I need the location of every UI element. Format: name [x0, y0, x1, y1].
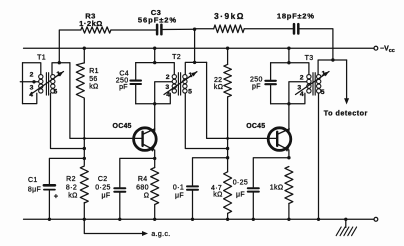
svg-text:8·2: 8·2 — [66, 184, 77, 191]
svg-text:8μF: 8μF — [28, 186, 41, 193]
node R1 top — [83, 47, 86, 50]
svg-text:To detector: To detector — [324, 108, 368, 117]
wire a.g.c. — [84, 219, 144, 233]
svg-text:R2: R2 — [66, 176, 76, 183]
svg-text:250: 250 — [250, 77, 263, 84]
-Vcc terminal — [374, 46, 378, 50]
ground — [344, 218, 347, 221]
resistor R2 — [80, 166, 88, 203]
resistor R3 — [81, 27, 111, 33]
svg-text:680: 680 — [136, 184, 149, 191]
svg-text:5: 5 — [321, 89, 325, 96]
svg-text:pF: pF — [119, 84, 128, 91]
svg-text:18pF±2%: 18pF±2% — [277, 12, 315, 21]
resistor R1 — [83, 48, 85, 63]
svg-text:T1: T1 — [37, 55, 46, 62]
svg-text:pF: pF — [252, 84, 261, 91]
wire 0.1uF branch — [193, 158, 228, 186]
svg-text:3·9kΩ: 3·9kΩ — [214, 11, 245, 21]
capacitor C2 — [114, 187, 125, 189]
capacitor 250pF — [270, 63, 272, 80]
wire — [111, 29, 156, 31]
wire T2 tank top — [136, 63, 175, 75]
svg-text:4: 4 — [300, 91, 304, 98]
svg-text:OC45: OC45 — [113, 123, 132, 130]
wire T3 tank bottom — [271, 93, 305, 104]
svg-text:22: 22 — [214, 77, 223, 84]
wire T3 pin5 to ground rail — [318, 93, 320, 219]
svg-text:R4: R4 — [138, 176, 148, 183]
transistor OC45 — [268, 128, 291, 151]
node 22k top — [226, 47, 229, 50]
bottom rail — [24, 218, 375, 220]
svg-text:0·1: 0·1 — [173, 184, 184, 191]
capacitor 0.25uF — [248, 187, 259, 189]
svg-text:kΩ: kΩ — [213, 192, 222, 199]
svg-text:−Vcc: −Vcc — [380, 46, 395, 55]
svg-text:Ω: Ω — [144, 193, 150, 200]
transformer T3 — [307, 75, 311, 79]
wire T3 secondary top — [318, 60, 347, 74]
resistor R4 — [154, 158, 156, 167]
wire feedback line 2 — [194, 29, 196, 62]
wire T2 tank bottom — [136, 93, 171, 104]
svg-text:5: 5 — [188, 89, 192, 96]
resistor 1k — [285, 167, 293, 204]
wire to base Q2 — [207, 62, 278, 138]
wire input tap — [20, 81, 38, 83]
svg-text:μF: μF — [175, 193, 184, 200]
svg-text:kΩ: kΩ — [68, 193, 77, 200]
svg-text:5: 5 — [54, 89, 58, 96]
svg-text:OC45: OC45 — [246, 123, 265, 130]
wire T3 tank top — [271, 63, 309, 75]
svg-text:0·25: 0·25 — [233, 180, 248, 187]
wire — [300, 29, 333, 60]
node T2 feed top — [153, 47, 156, 50]
svg-text:kΩ: kΩ — [214, 84, 223, 91]
node base/bias — [83, 137, 86, 140]
svg-text:1kΩ: 1kΩ — [270, 184, 284, 191]
node T3 feed — [287, 47, 290, 50]
node feedback junction — [193, 28, 196, 31]
wire — [244, 28, 293, 30]
wire T1 pin5 to bias node — [51, 93, 85, 148]
wire emitter Q1 — [154, 150, 156, 158]
transistor OC45 — [134, 128, 157, 151]
node C1 junction — [83, 157, 86, 160]
to detector arrow — [346, 60, 348, 100]
wire collector Q1 — [154, 104, 156, 131]
wire feed — [154, 48, 156, 62]
svg-text:3: 3 — [165, 84, 169, 91]
capacitor C4 — [135, 63, 137, 80]
transformer T1 — [39, 75, 43, 79]
svg-text:0·25: 0·25 — [95, 184, 110, 191]
svg-text:+: + — [54, 192, 59, 201]
svg-text:2: 2 — [30, 71, 34, 78]
svg-text:2: 2 — [166, 74, 170, 81]
wire emitter Q2 — [288, 150, 290, 158]
svg-text:R1: R1 — [89, 68, 99, 75]
wire T2 pin5 — [185, 93, 227, 148]
svg-text:56pF±2%: 56pF±2% — [138, 16, 177, 25]
wire T1 left bracket — [22, 63, 24, 104]
node input tap — [32, 80, 35, 83]
wire — [163, 28, 195, 30]
transformer T2 — [172, 75, 176, 79]
svg-text:C1: C1 — [28, 177, 38, 184]
tuning arrow T3 — [296, 72, 330, 95]
node base Q2 — [226, 137, 229, 140]
wire collector Q2 — [288, 104, 290, 131]
top supply rail — [24, 47, 375, 49]
wire emitter to 0.25uF — [253, 158, 289, 188]
tuning arrow T2 — [164, 72, 197, 95]
wire feedback line 1 — [59, 30, 81, 63]
svg-text:μF: μF — [101, 193, 110, 200]
wire T1 secondary top to feedback — [52, 63, 70, 75]
wire secondary to base Q1 — [70, 63, 143, 139]
svg-text:T3: T3 — [305, 55, 314, 62]
svg-text:56: 56 — [89, 76, 98, 83]
wire emitter to C2 — [120, 158, 155, 187]
wire T3 tap — [289, 82, 307, 104]
svg-text:T2: T2 — [172, 54, 181, 61]
capacitor 0.1uF — [187, 185, 198, 187]
wire T1 primary top — [23, 63, 41, 75]
svg-text:a.g.c.: a.g.c. — [151, 231, 170, 238]
svg-text:kΩ: kΩ — [89, 83, 98, 90]
node — [58, 61, 61, 64]
svg-text:C2: C2 — [98, 176, 108, 183]
capacitor C1 — [44, 184, 55, 187]
capacitor C3 — [156, 25, 159, 34]
svg-text:2: 2 — [300, 75, 304, 82]
wire T1 primary bottom — [23, 93, 37, 103]
resistor 4.7k — [224, 172, 232, 214]
wire T2 secondary top — [185, 62, 206, 74]
resistor 3.9k — [214, 25, 245, 33]
wire T2 tap — [155, 82, 172, 104]
svg-text:1·2kΩ: 1·2kΩ — [79, 19, 103, 28]
capacitor 18pF — [293, 24, 296, 33]
tuning arrow T1 — [31, 72, 64, 95]
svg-text:μF: μF — [236, 191, 245, 198]
bottom right terminal — [374, 217, 378, 221]
resistor 22k — [227, 48, 229, 64]
wire C1 branch — [49, 158, 84, 184]
